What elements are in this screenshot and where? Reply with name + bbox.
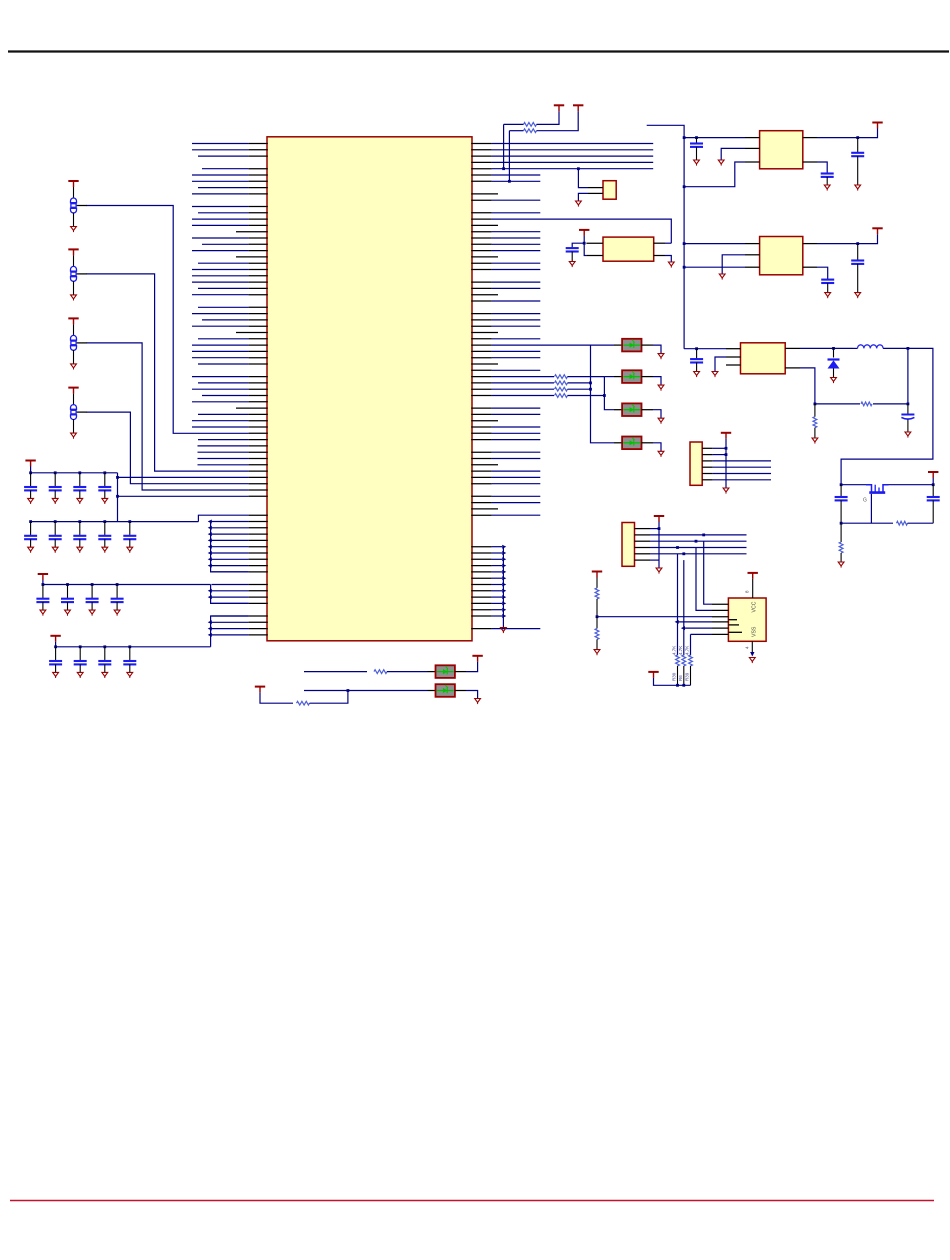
ground	[52, 498, 58, 504]
wire	[492, 432, 541, 434]
U1 right pin row 5	[471, 168, 491, 170]
wire	[814, 428, 816, 438]
wire	[212, 596, 249, 598]
VCC power symbol	[872, 228, 882, 234]
junction arrow	[208, 557, 212, 561]
wire	[212, 628, 249, 630]
LED5	[436, 665, 455, 678]
cap lead	[79, 539, 81, 547]
wire	[192, 250, 249, 252]
wire	[192, 269, 249, 271]
ferrite bead FB2	[71, 255, 77, 295]
U1 left pin row 5	[249, 168, 268, 170]
U1 left pin row 77	[249, 621, 268, 623]
wire	[678, 621, 713, 623]
wire	[492, 546, 502, 548]
wire	[815, 403, 860, 405]
U1 right pin row 37	[471, 369, 491, 371]
regulator VR2	[760, 237, 803, 275]
U1 left pin row 76	[249, 615, 268, 617]
wire	[198, 445, 249, 447]
junction	[103, 471, 106, 474]
LED3	[622, 403, 641, 416]
U1 left pin row 69	[249, 571, 268, 573]
U1 right pin row 44	[471, 413, 491, 415]
ground	[658, 385, 664, 391]
capacitor (bank4)	[123, 661, 136, 664]
wire	[212, 546, 249, 548]
U1 right pin row 25 (stub only)	[471, 294, 498, 296]
cap lead	[30, 539, 32, 547]
ground	[71, 364, 77, 370]
junction arrow	[502, 557, 506, 561]
wire	[192, 357, 249, 359]
cap lead	[42, 602, 44, 610]
junction	[840, 522, 843, 525]
LED1	[622, 339, 641, 352]
wire	[492, 577, 502, 579]
junction	[695, 347, 698, 350]
wire	[202, 168, 249, 170]
junction	[856, 242, 859, 245]
U1 left pin row 24	[249, 287, 268, 289]
cap lead	[79, 664, 81, 672]
wire	[568, 382, 591, 384]
wire	[192, 281, 249, 283]
junction	[116, 476, 119, 479]
wire	[192, 143, 249, 145]
junction	[42, 583, 45, 586]
bank2 cap C lead	[79, 522, 81, 536]
connector J2	[622, 523, 635, 567]
U1 right pin row 17	[471, 243, 491, 245]
wire	[304, 690, 428, 692]
U1 right pin row 36 (stub only)	[471, 363, 498, 365]
cap lead	[55, 664, 57, 672]
wire	[713, 460, 771, 462]
capacitor C18	[835, 497, 848, 500]
wire (divider to U2)	[597, 616, 712, 618]
U1 left pin row 20	[249, 262, 268, 264]
wire	[492, 407, 541, 409]
wire	[704, 541, 712, 604]
ground	[102, 547, 108, 553]
capacitor (bank1)	[49, 487, 62, 490]
junction	[103, 645, 106, 648]
U2 pin mark	[728, 624, 739, 626]
wire	[690, 634, 692, 655]
ground	[694, 160, 700, 166]
U1 left pin row 8	[249, 187, 268, 189]
wire	[650, 540, 747, 542]
U1 left pin row 19 (stub only)	[236, 256, 268, 258]
wire	[568, 388, 591, 390]
resistor R9	[297, 701, 310, 705]
VCC power symbol	[68, 318, 78, 324]
ground	[658, 418, 664, 424]
wire	[715, 357, 726, 372]
cap lead	[91, 602, 93, 610]
wire	[492, 395, 554, 397]
U1 right pin row 69	[471, 571, 491, 573]
wire	[304, 671, 367, 673]
wire	[857, 138, 859, 153]
wire	[677, 554, 679, 656]
resistor R5	[595, 588, 599, 599]
junction arrow	[502, 564, 506, 568]
U1 right pin row 78	[471, 628, 491, 630]
U1 right pin row 30	[471, 325, 491, 327]
U1 left pin row 39	[249, 382, 268, 384]
LED2	[622, 370, 641, 383]
resistor R7	[555, 394, 568, 398]
U1 right pin row 35	[471, 357, 491, 359]
wire	[192, 401, 249, 403]
wire	[192, 174, 249, 176]
wire	[857, 156, 859, 185]
ferrite bead FB1	[71, 187, 77, 227]
VR2 out stub	[803, 243, 817, 245]
wire	[696, 363, 698, 372]
U2 pin 1 stub	[712, 603, 728, 605]
wire	[504, 123, 524, 125]
wire	[650, 528, 659, 530]
capacitor C19	[927, 497, 940, 500]
junction arrow	[502, 551, 506, 555]
capacitor (bank2)	[73, 536, 86, 539]
VR2 pin3 stub	[745, 266, 760, 268]
junction	[676, 546, 679, 549]
schottky diode D1	[828, 348, 840, 377]
ground	[77, 547, 83, 553]
wire (VR3 input)	[684, 348, 726, 350]
VCC power symbol	[592, 572, 602, 578]
wire	[192, 350, 249, 352]
wire	[492, 596, 502, 598]
wire	[492, 269, 541, 271]
bank2 cap C lead	[30, 522, 32, 536]
junction	[840, 483, 843, 486]
U1 right pin row 14 (stub only)	[471, 224, 498, 226]
U1 right pin row 40	[471, 388, 491, 390]
U1 right pin row 21	[471, 269, 491, 271]
U1 right pin row 52 (stub only)	[471, 464, 498, 466]
bank1 cap C lead	[30, 473, 32, 487]
U1 right pin row 19 (stub only)	[471, 256, 498, 258]
capacitor (bank2)	[98, 536, 111, 539]
junction	[347, 689, 350, 692]
wire	[492, 287, 541, 289]
U1 right pin row 43	[471, 407, 491, 409]
VR1 pin1 stub	[745, 137, 760, 139]
wire	[212, 621, 249, 623]
bank3 cap C lead	[91, 585, 93, 599]
wire	[198, 464, 249, 466]
wire	[198, 187, 249, 189]
wire	[212, 634, 249, 636]
capacitor (bank3)	[111, 599, 124, 602]
U1 right pin row 13	[471, 218, 491, 220]
wire	[42, 580, 44, 585]
cap lead	[129, 539, 131, 547]
U1 left pin row 42	[249, 401, 268, 403]
wire	[492, 180, 541, 182]
U1 left pin row 14	[249, 224, 268, 226]
wire	[653, 345, 661, 354]
wire	[840, 500, 842, 523]
wire	[653, 410, 661, 419]
junction	[683, 185, 686, 188]
wire (net stub)	[647, 125, 684, 348]
U1 right pin row 31 (stub only)	[471, 332, 498, 334]
U1 right pin row 76	[471, 615, 491, 617]
wire (VR3 output)	[800, 347, 853, 349]
U1 right pin row 23	[471, 281, 491, 283]
wire	[665, 242, 671, 244]
junction	[683, 266, 686, 269]
U1 left pin row 46	[249, 426, 268, 428]
U2 pin 5 stub	[712, 627, 728, 629]
U1 left pin row 48	[249, 439, 268, 441]
wire	[212, 527, 249, 529]
X1 pin 2 stub	[586, 255, 603, 257]
wire	[202, 395, 249, 397]
wire	[202, 243, 249, 245]
X1 pin 1 stub	[586, 242, 603, 244]
ground	[127, 672, 133, 678]
wire	[826, 177, 828, 185]
wire	[212, 552, 249, 554]
U2 pin 3 stub	[712, 616, 728, 618]
svg-text:VSS: VSS	[752, 626, 758, 637]
wire	[591, 344, 615, 346]
bank2 cap C lead	[104, 522, 106, 536]
VCC power symbol	[255, 687, 265, 693]
wire (LED feed)	[492, 344, 591, 346]
wire	[840, 523, 842, 542]
wire	[508, 131, 510, 182]
ground	[694, 372, 700, 378]
wire	[492, 155, 654, 157]
wire	[691, 633, 713, 635]
U2 pin4 lead	[751, 641, 753, 653]
wire	[684, 627, 712, 629]
U1 right pin row 24	[471, 287, 491, 289]
U1 left pin row 43 (stub only)	[236, 407, 268, 409]
resistor R11	[839, 542, 843, 553]
VR1 out2 stub	[803, 161, 817, 163]
wire	[721, 148, 745, 160]
U1 left pin row 47	[249, 432, 268, 434]
U1 right pin row 65	[471, 546, 491, 548]
wire	[466, 662, 478, 672]
junction	[589, 388, 592, 391]
cap lead	[129, 664, 131, 672]
U1 left pin row 71	[249, 584, 268, 586]
wire	[653, 377, 661, 386]
J1 pin 6 stub	[702, 479, 713, 481]
U1 right pin row 20	[471, 262, 491, 264]
svg-text:4.7K: 4.7K	[685, 646, 690, 655]
junction	[725, 453, 728, 456]
junction	[103, 520, 106, 523]
ground	[658, 354, 664, 360]
wire	[492, 426, 541, 428]
X1 pin 3 stub	[654, 242, 665, 244]
wire	[492, 338, 541, 340]
VCC power symbol	[554, 105, 564, 111]
wire	[192, 426, 249, 428]
top rule	[8, 50, 949, 52]
wire	[198, 287, 249, 289]
wire	[696, 147, 698, 160]
wire	[932, 485, 934, 497]
wire	[192, 193, 249, 195]
wire	[192, 237, 249, 239]
wire	[650, 559, 659, 561]
resistor R7	[595, 628, 599, 639]
wire	[192, 224, 249, 226]
junction	[832, 347, 835, 350]
U1 right pin row 74	[471, 602, 491, 604]
ground	[825, 293, 831, 299]
junction arrow	[208, 520, 212, 524]
wire	[492, 628, 541, 630]
U1 right pin row 10	[471, 199, 491, 201]
capacitor (bank2)	[24, 536, 37, 539]
ground	[40, 610, 46, 616]
U1 right pin row 33	[471, 344, 491, 346]
junction	[29, 520, 32, 523]
wire	[654, 678, 691, 685]
wire	[212, 584, 249, 586]
wire	[87, 343, 249, 490]
U1 right pin row 4	[471, 161, 491, 163]
ferrite bead FB3	[71, 324, 77, 364]
wire	[492, 174, 541, 176]
cap lead	[54, 539, 56, 547]
wire	[198, 439, 249, 441]
junction	[676, 684, 679, 687]
wire (left GND bus A)	[211, 522, 249, 572]
wire	[192, 275, 249, 277]
wire (left bus C)	[211, 616, 249, 647]
U2 pin mark	[728, 619, 737, 621]
junction	[78, 471, 81, 474]
junction arrow	[208, 564, 212, 568]
Y1 pin 2 stub	[588, 192, 603, 194]
ground	[52, 547, 58, 553]
U1 left pin row 9	[249, 193, 268, 195]
U1 left pin row 56	[249, 489, 268, 491]
Y1 pin 1 stub	[588, 187, 603, 189]
junction	[78, 520, 81, 523]
wire	[509, 130, 523, 132]
wire	[857, 244, 859, 261]
junction	[682, 684, 685, 687]
U1 right pin row 75	[471, 609, 491, 611]
wire	[492, 413, 541, 415]
wire	[713, 473, 771, 475]
wire	[212, 521, 249, 523]
wire	[212, 602, 249, 604]
wire	[596, 599, 598, 617]
ground	[114, 610, 120, 616]
U1 right pin row 57	[471, 495, 491, 497]
wire	[212, 590, 249, 592]
resistor R2	[524, 129, 537, 133]
EEPROM U2	[728, 598, 766, 641]
wire	[492, 609, 502, 611]
U1 left pin row 55	[249, 483, 268, 485]
J1 pin 4 stub	[702, 466, 713, 468]
wire	[684, 266, 745, 268]
U1 left pin row 13	[249, 218, 268, 220]
ground	[71, 433, 77, 439]
wire	[537, 111, 560, 124]
VR2 out2 stub	[803, 266, 817, 268]
wire	[198, 413, 249, 415]
wire	[650, 534, 747, 536]
junction	[932, 483, 935, 486]
svg-text:R6: R6	[678, 675, 683, 681]
resistor R39	[689, 655, 693, 666]
ground	[53, 672, 59, 678]
wire	[212, 558, 249, 560]
ground	[905, 432, 911, 438]
junction arrow	[502, 595, 506, 599]
wire (LED bus 2)	[604, 377, 614, 410]
VCC power symbol	[748, 573, 758, 579]
U1 right pin row 34	[471, 350, 491, 352]
U1 left pin row 41	[249, 395, 268, 397]
junction	[907, 403, 910, 406]
junction	[128, 645, 131, 648]
VR1 pin3 stub	[745, 161, 760, 163]
capacitor (bank4)	[74, 661, 87, 664]
wire	[260, 693, 293, 704]
junction arrow	[208, 633, 212, 637]
wire	[492, 250, 541, 252]
ground	[102, 672, 108, 678]
resistor R5	[555, 381, 568, 385]
ground	[723, 488, 729, 494]
wire	[568, 376, 605, 378]
U1 left pin row 64	[249, 539, 268, 541]
bank2 cap C lead	[129, 522, 131, 536]
wire (top)	[841, 484, 866, 486]
junction arrow	[675, 620, 679, 624]
ground	[812, 438, 818, 444]
U1 left pin row 49	[249, 445, 268, 447]
wire	[492, 143, 654, 145]
regulator VR3	[741, 343, 786, 374]
wire	[55, 642, 57, 647]
junction	[695, 136, 698, 139]
ground	[824, 185, 830, 191]
U1 left pin row 1	[249, 143, 268, 145]
U2 pin8 lead	[752, 579, 754, 598]
U1 left pin row 44	[249, 413, 268, 415]
junction	[54, 471, 57, 474]
wire	[212, 615, 249, 617]
junction	[658, 527, 661, 530]
capacitor (bank1)	[73, 487, 86, 490]
wire	[212, 571, 249, 573]
U1 right pin row 18	[471, 250, 491, 252]
U1 right pin row 47	[471, 432, 491, 434]
wire	[722, 255, 745, 274]
